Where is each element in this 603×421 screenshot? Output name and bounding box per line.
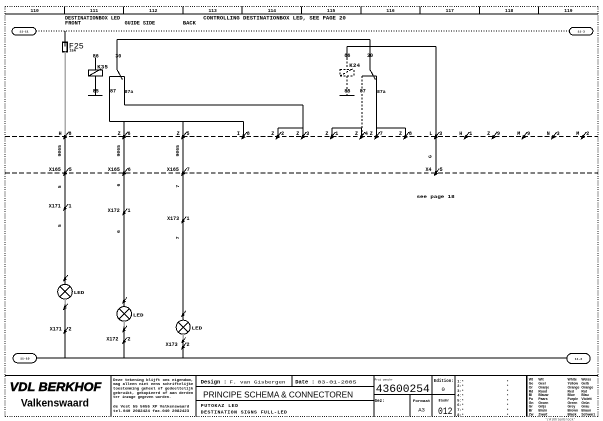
svg-text:2: 2 xyxy=(128,337,131,343)
svg-text:1: 1 xyxy=(69,203,72,209)
svg-text:119: 119 xyxy=(564,8,573,14)
svg-text:1: 1 xyxy=(128,208,131,214)
svg-text:Z: Z xyxy=(399,131,402,137)
svg-text:LED: LED xyxy=(74,290,85,296)
svg-text:1: 1 xyxy=(469,131,472,137)
svg-text:H: H xyxy=(59,131,62,137)
svg-text:Gez:: Gez: xyxy=(375,400,385,404)
svg-text:X165: X165 xyxy=(108,167,120,173)
svg-text:M: M xyxy=(517,131,520,137)
svg-text:X171: X171 xyxy=(50,326,62,332)
svg-text:6: 6 xyxy=(128,167,131,173)
svg-text:CONTROLLING DESTINATIONBOX LED: CONTROLLING DESTINATIONBOX LED, SEE PAGE… xyxy=(203,16,345,22)
svg-text:87a: 87a xyxy=(377,89,386,95)
svg-text:5: 5 xyxy=(57,185,63,188)
svg-text:1: 1 xyxy=(335,131,338,137)
svg-text:43600254: 43600254 xyxy=(376,384,430,396)
svg-text:gebruikt, gekopieerd of aan de: gebruikt, gekopieerd of aan derden xyxy=(113,391,193,396)
svg-text:4: 4 xyxy=(365,131,368,137)
svg-text:87: 87 xyxy=(360,89,366,95)
svg-text:11-11: 11-11 xyxy=(19,30,28,34)
svg-text:9065: 9065 xyxy=(57,145,63,157)
svg-text:8: 8 xyxy=(69,131,72,137)
svg-text:9065: 9065 xyxy=(175,145,181,157)
svg-text:87a: 87a xyxy=(125,89,134,95)
svg-text:113: 113 xyxy=(208,8,217,14)
svg-text:*: * xyxy=(507,403,509,408)
svg-text:03-01-2005: 03-01-2005 xyxy=(318,379,357,385)
svg-text:*: * xyxy=(507,398,509,403)
svg-text:see page 18: see page 18 xyxy=(417,194,455,200)
svg-text:Z: Z xyxy=(325,131,328,137)
svg-text:M: M xyxy=(576,131,579,137)
svg-text:X4: X4 xyxy=(426,167,432,173)
svg-text:4:*: 4:* xyxy=(457,394,463,399)
svg-text:2:*: 2:* xyxy=(457,384,463,389)
svg-text:Black: Black xyxy=(568,412,577,416)
svg-text:Proj omschr: Proj omschr xyxy=(375,378,393,382)
svg-text:5: 5 xyxy=(440,167,443,173)
svg-text:2: 2 xyxy=(187,342,190,348)
svg-text:FRONT: FRONT xyxy=(65,21,81,27)
svg-text:PUTOKAZ LED: PUTOKAZ LED xyxy=(201,403,239,409)
svg-text:85: 85 xyxy=(93,89,99,95)
svg-text:Z: Z xyxy=(355,131,358,137)
svg-text:112: 112 xyxy=(149,8,158,14)
svg-text:5: 5 xyxy=(187,131,190,137)
svg-text:tel.040 2082424 fax.040 208242: tel.040 2082424 fax.040 2082423 xyxy=(113,409,189,414)
svg-text:X173: X173 xyxy=(166,342,178,348)
svg-text:Bladnr: Bladnr xyxy=(439,399,450,403)
svg-text:toestemming geheel of gedeelte: toestemming geheel of gedeeltelijk xyxy=(113,387,194,392)
svg-text:Date :: Date : xyxy=(295,379,315,385)
svg-text:Zw: Zw xyxy=(529,412,534,416)
svg-text:6: 6 xyxy=(116,230,122,233)
svg-text:7: 7 xyxy=(175,185,181,188)
svg-text:111: 111 xyxy=(90,8,99,14)
svg-text:11-3: 11-3 xyxy=(577,30,585,34)
svg-text:3: 3 xyxy=(306,131,309,137)
svg-text:*: * xyxy=(507,413,509,418)
svg-text:X165: X165 xyxy=(49,167,61,173)
svg-text:2: 2 xyxy=(586,131,589,137)
svg-text:Deze tekening blijft ons eigen: Deze tekening blijft ons eigendom, xyxy=(113,378,193,383)
svg-text:Design :: Design : xyxy=(201,379,227,385)
svg-text:1:*: 1:* xyxy=(457,379,463,384)
svg-text:30: 30 xyxy=(367,53,373,59)
svg-text:PRINCIPE SCHEMA & CONNECTOREN: PRINCIPE SCHEMA & CONNECTOREN xyxy=(203,389,353,399)
svg-text:6: 6 xyxy=(128,131,131,137)
svg-text:7: 7 xyxy=(175,236,181,239)
svg-text:9: 9 xyxy=(527,131,530,137)
svg-text:85: 85 xyxy=(344,89,350,95)
svg-text:Schwarz: Schwarz xyxy=(581,412,595,416)
svg-text:Formaat: Formaat xyxy=(413,399,431,403)
svg-text:Z: Z xyxy=(271,131,274,137)
svg-text:*: * xyxy=(507,408,509,413)
svg-text:114: 114 xyxy=(268,8,277,14)
svg-text:7: 7 xyxy=(187,167,190,173)
svg-text:Z: Z xyxy=(487,131,490,137)
svg-text:9065: 9065 xyxy=(116,145,122,157)
svg-text:DESTINATION SIGNS FULL-LED: DESTINATION SIGNS FULL-LED xyxy=(201,410,288,416)
svg-text:I: I xyxy=(237,131,240,137)
svg-text:3: 3 xyxy=(439,131,442,137)
svg-text:*: * xyxy=(507,394,509,399)
svg-text:LED: LED xyxy=(192,326,203,332)
svg-text:7:*: 7:* xyxy=(457,408,463,413)
svg-text:6: 6 xyxy=(116,184,122,187)
svg-text:2: 2 xyxy=(69,326,72,332)
svg-text:X171: X171 xyxy=(49,203,61,209)
svg-text:*: * xyxy=(507,389,509,394)
svg-text:117: 117 xyxy=(446,8,455,14)
svg-text:mag alleen niet eens schriftel: mag alleen niet eens schriftelijke xyxy=(113,382,193,387)
svg-text:5: 5 xyxy=(69,167,72,173)
svg-text:*: * xyxy=(507,384,509,389)
svg-text:*: * xyxy=(507,379,509,384)
svg-text:GUIDE SIDE: GUIDE SIDE xyxy=(125,21,156,27)
svg-text:6:*: 6:* xyxy=(457,403,463,408)
svg-text:8:*: 8:* xyxy=(457,413,463,418)
svg-text:Z: Z xyxy=(118,131,121,137)
svg-text:110: 110 xyxy=(31,8,40,14)
svg-text:F. van Gisbergen: F. van Gisbergen xyxy=(230,379,286,385)
svg-text:LED: LED xyxy=(133,312,144,318)
svg-text:Z: Z xyxy=(177,131,180,137)
svg-text:8: 8 xyxy=(409,131,412,137)
svg-text:87: 87 xyxy=(110,89,116,95)
svg-text:X172: X172 xyxy=(108,208,120,214)
svg-text:BACK: BACK xyxy=(183,21,196,27)
svg-text:2: 2 xyxy=(281,131,284,137)
svg-text:118: 118 xyxy=(505,8,514,14)
svg-text:30: 30 xyxy=(115,53,121,59)
svg-text:7: 7 xyxy=(380,131,383,137)
svg-text:3:*: 3:* xyxy=(457,389,463,394)
svg-text:115: 115 xyxy=(327,8,336,14)
svg-text:'(A)Uhlenbrock': '(A)Uhlenbrock' xyxy=(545,418,576,421)
svg-text:3: 3 xyxy=(557,131,560,137)
svg-text:116: 116 xyxy=(386,8,395,14)
svg-text:11-10: 11-10 xyxy=(20,357,29,361)
svg-text:VDL BERKHOF: VDL BERKHOF xyxy=(10,380,102,394)
svg-text:Edition:: Edition: xyxy=(434,379,454,384)
svg-text:Zwart: Zwart xyxy=(538,412,548,416)
svg-text:1: 1 xyxy=(187,216,190,222)
svg-text:de Vest 55 5655 XP Valkenswaar: de Vest 55 5655 XP Valkenswaard xyxy=(113,405,189,410)
svg-text:9: 9 xyxy=(497,131,500,137)
svg-text:Valkenswaard: Valkenswaard xyxy=(21,397,89,409)
svg-text:L: L xyxy=(429,131,432,137)
svg-text:N: N xyxy=(547,131,550,137)
svg-text:Z: Z xyxy=(296,131,299,137)
svg-text:K24: K24 xyxy=(349,62,360,69)
svg-text:86: 86 xyxy=(93,53,99,59)
svg-text:H: H xyxy=(459,131,462,137)
svg-text:G: G xyxy=(428,155,434,158)
svg-text:K35: K35 xyxy=(97,64,108,71)
svg-text:15A: 15A xyxy=(69,50,76,54)
svg-text:86: 86 xyxy=(344,53,350,59)
svg-text:X165: X165 xyxy=(167,167,179,173)
svg-text:11-2: 11-2 xyxy=(575,357,583,361)
svg-text:5: 5 xyxy=(57,224,63,227)
svg-text:ter inzage gegeven worden.: ter inzage gegeven worden. xyxy=(113,395,171,400)
svg-text:X172: X172 xyxy=(106,337,118,343)
svg-text:012: 012 xyxy=(438,407,453,418)
svg-text:A3: A3 xyxy=(418,406,425,413)
svg-text:5:*: 5:* xyxy=(457,398,463,403)
svg-text:8: 8 xyxy=(247,131,250,137)
svg-text:X173: X173 xyxy=(167,216,179,222)
svg-text:Z: Z xyxy=(370,131,373,137)
